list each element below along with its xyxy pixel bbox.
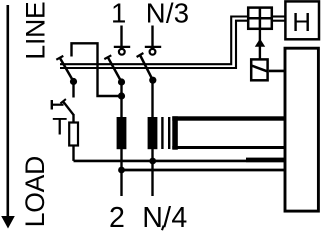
svg-text:H: H [292, 7, 311, 37]
svg-text:T: T [52, 114, 67, 141]
svg-text:1: 1 [111, 0, 126, 28]
svg-text:N/4: N/4 [142, 202, 187, 231]
svg-text:LOAD: LOAD [20, 156, 50, 227]
svg-text:LINE: LINE [21, 1, 51, 59]
svg-text:N/3: N/3 [146, 0, 189, 28]
svg-text:2: 2 [109, 202, 125, 231]
